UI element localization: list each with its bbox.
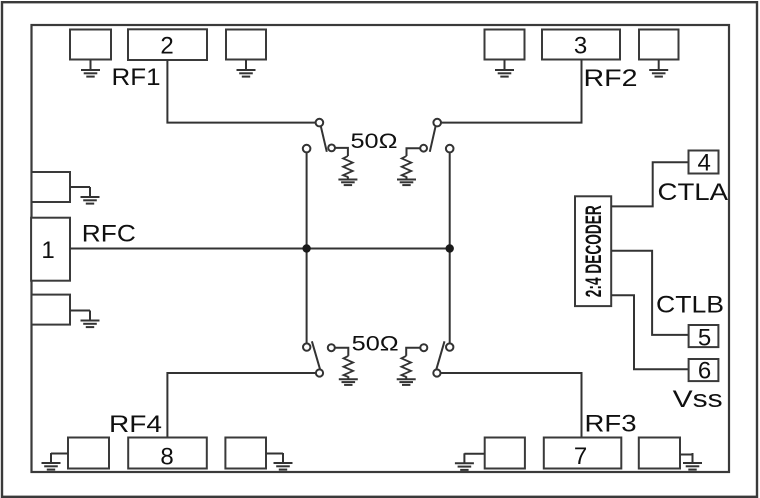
switch SW2 open contact (RFC bus) — [446, 145, 454, 153]
switch SW4 arm — [312, 341, 320, 370]
wire to resistor R2 — [407, 148, 421, 156]
pad 7 (RF3) — [544, 438, 622, 469]
svg-text:RF2: RF2 — [584, 65, 638, 92]
svg-text:RFC: RFC — [82, 220, 136, 247]
wire to ground (pad G) — [464, 453, 484, 455]
wire to ground (pad H) — [680, 454, 693, 456]
ground (R1) — [338, 177, 357, 186]
wire RF3: switch SW3 to pad 7 — [441, 373, 582, 438]
pad 6 (Vss) — [689, 359, 719, 381]
wire RF4: switch SW4 to pad 8 — [167, 373, 316, 438]
wire RF1: pad 2 to switch SW1 — [167, 60, 315, 123]
svg-text:RF3: RF3 — [585, 410, 637, 437]
svg-text:50Ω: 50Ω — [352, 332, 399, 355]
ground pad bottom G — [485, 438, 525, 469]
ground (R3) — [397, 376, 416, 385]
switch SW1 throw contact (to 50 ohm) — [328, 145, 335, 152]
ground (pad H) — [683, 453, 702, 470]
ground pad bottom-right H — [639, 438, 680, 469]
switch SW3 pole contact (RFC bus) — [446, 343, 453, 350]
ground pad left lower — [32, 295, 71, 325]
resistor R4 50 ohm — [344, 356, 354, 377]
decoder U1 box — [575, 196, 611, 306]
wire to resistor R4 — [335, 348, 349, 356]
pad 4 (CTLA) — [689, 151, 719, 174]
svg-text:2: 2 — [160, 32, 173, 59]
wire to ground (left upper pad) — [70, 186, 90, 188]
ground (pad C) — [495, 60, 514, 77]
wire to ground (pad F) — [266, 453, 283, 455]
svg-text:RF1: RF1 — [112, 64, 161, 91]
switch SW1 pole contact (RF1) — [316, 119, 324, 127]
switch SW4 pole contact (RFC bus) — [303, 343, 310, 350]
svg-text:4: 4 — [698, 149, 711, 176]
wire bus vertical left — [306, 153, 308, 344]
switch SW3 arm — [436, 341, 444, 370]
ground pad left upper — [32, 172, 71, 202]
svg-text:CTLA: CTLA — [658, 179, 729, 206]
switch SW2 pole contact (RF2) — [433, 119, 441, 127]
svg-text:RF4: RF4 — [109, 411, 162, 438]
resistor R2 50 ohm — [402, 156, 412, 177]
resistor R3 50 ohm — [401, 356, 411, 377]
ground pad top-left A — [70, 30, 111, 60]
svg-text:7: 7 — [574, 443, 587, 470]
ground pad bottom-left E — [68, 438, 109, 469]
wire RF2: pad 3 to switch SW2 — [441, 60, 582, 123]
switch SW2 arm — [430, 126, 436, 152]
switch SW4 throw contact (RF4) — [316, 369, 323, 376]
ground (pad F) — [274, 453, 293, 470]
ground pad top B — [226, 30, 266, 60]
switch SW3 open contact (to 50 ohm) — [420, 344, 427, 351]
svg-text:5: 5 — [698, 324, 711, 351]
switch SW1 open contact (RFC bus) — [303, 145, 311, 153]
ground pad top C — [485, 30, 525, 60]
ground pad bottom F — [225, 438, 266, 469]
svg-text:2:4 DECODER: 2:4 DECODER — [581, 205, 606, 297]
ground (R4) — [339, 376, 358, 385]
switch SW4 open contact (to 50 ohm) — [328, 344, 335, 351]
ground (R2) — [397, 177, 416, 186]
svg-text:CTLB: CTLB — [656, 292, 724, 319]
svg-text:6: 6 — [698, 357, 711, 384]
ground (pad B) — [237, 60, 256, 77]
pad 8 (RF4) — [128, 438, 207, 469]
wire to resistor R3 — [406, 348, 420, 356]
svg-text:1: 1 — [41, 237, 54, 264]
ground (pad D) — [649, 60, 668, 77]
pad 2 (RF1) — [128, 29, 207, 60]
wire to ground (left lower pad) — [70, 310, 90, 312]
ground (left upper pad) — [81, 187, 100, 204]
pad 3 (RF2) — [542, 30, 620, 60]
svg-text:Vss: Vss — [673, 386, 723, 413]
node junction right — [446, 244, 454, 252]
ground (pad G) — [455, 453, 474, 470]
ground (pad E) — [42, 453, 61, 470]
svg-text:8: 8 — [160, 444, 173, 471]
wire Vss: decoder to pad 6 — [611, 295, 688, 369]
ground (left lower pad) — [81, 311, 100, 328]
switch SW3 throw contact (RF3) — [433, 369, 440, 376]
svg-text:3: 3 — [574, 32, 587, 59]
svg-text:50Ω: 50Ω — [351, 130, 398, 153]
switch SW2 throw contact (to 50 ohm) — [420, 145, 427, 152]
switch SW1 arm — [321, 126, 327, 152]
wire to resistor R1 — [335, 148, 348, 156]
wire to ground (pad E) — [51, 453, 68, 455]
wire RFC bus — [70, 248, 450, 250]
wire bus vertical right — [449, 153, 451, 344]
resistor R1 50 ohm — [343, 156, 353, 177]
ground pad top-right D — [639, 30, 679, 60]
pad 1 (RFC) — [31, 218, 70, 281]
ground (pad A) — [81, 60, 100, 77]
node junction left — [302, 244, 310, 252]
pad 5 (CTLB) — [689, 325, 719, 347]
wire CTLA: pad 4 to decoder — [611, 162, 688, 206]
wire CTLB: decoder to pad 5 — [611, 251, 688, 335]
